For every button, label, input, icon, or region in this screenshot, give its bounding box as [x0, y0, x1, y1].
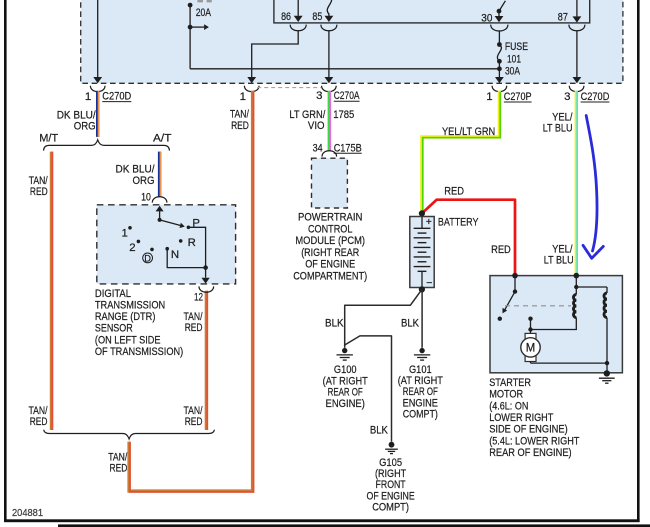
svg-text:1785: 1785: [333, 109, 354, 121]
svg-text:N: N: [171, 249, 179, 261]
svg-text:DK BLU/: DK BLU/: [57, 109, 97, 121]
svg-text:SENSOR: SENSOR: [95, 323, 133, 335]
svg-text:BLK: BLK: [325, 317, 344, 329]
svg-text:(5.4L: LOWER RIGHT: (5.4L: LOWER RIGHT: [489, 435, 579, 447]
svg-text:OF TRANSMISSION): OF TRANSMISSION): [95, 346, 183, 358]
svg-text:1: 1: [240, 91, 246, 103]
svg-text:MODULE (PCM): MODULE (PCM): [295, 235, 365, 247]
svg-text:D: D: [144, 253, 151, 263]
svg-text:1: 1: [85, 91, 91, 103]
svg-text:2: 2: [129, 242, 135, 254]
svg-text:−: −: [426, 277, 432, 289]
svg-text:ORG: ORG: [133, 175, 155, 187]
svg-text:TAN/: TAN/: [230, 109, 250, 121]
svg-text:POWERTRAIN: POWERTRAIN: [298, 212, 362, 224]
svg-text:RED: RED: [30, 186, 48, 198]
svg-text:C270A: C270A: [334, 90, 360, 102]
svg-text:DIGITAL: DIGITAL: [95, 288, 131, 300]
svg-text:3: 3: [316, 90, 322, 102]
svg-text:MOTOR: MOTOR: [489, 389, 523, 401]
svg-text:20A: 20A: [196, 7, 212, 19]
svg-text:BLK: BLK: [401, 317, 419, 329]
svg-text:RANGE (DTR): RANGE (DTR): [95, 311, 156, 323]
svg-text:SIDE OF ENGINE): SIDE OF ENGINE): [489, 424, 568, 436]
svg-text:12: 12: [194, 292, 203, 304]
svg-text:G100: G100: [334, 364, 357, 376]
svg-text:YEL/LT GRN: YEL/LT GRN: [442, 126, 495, 138]
svg-text:30: 30: [481, 12, 492, 24]
svg-text:M: M: [526, 343, 536, 355]
svg-text:C270D: C270D: [102, 91, 131, 103]
svg-text:OF ENGINE: OF ENGINE: [305, 259, 355, 271]
svg-text:(RIGHT REAR: (RIGHT REAR: [301, 247, 359, 259]
svg-text:A/T: A/T: [153, 132, 172, 144]
svg-text:M/T: M/T: [39, 132, 58, 144]
svg-text:RED: RED: [30, 416, 48, 428]
svg-text:FUSE: FUSE: [505, 41, 528, 53]
svg-text:TRANSMISSION: TRANSMISSION: [95, 300, 165, 312]
svg-text:COMPT): COMPT): [372, 501, 409, 513]
svg-text:RED: RED: [491, 244, 511, 256]
svg-text:COMPT): COMPT): [403, 408, 438, 420]
svg-text:86: 86: [281, 11, 291, 23]
svg-text:(AT RIGHT: (AT RIGHT: [323, 375, 368, 387]
svg-text:30A: 30A: [505, 65, 520, 77]
svg-text:C270D: C270D: [581, 91, 610, 103]
svg-text:RED: RED: [185, 416, 203, 428]
svg-text:REAR OF ENGINE): REAR OF ENGINE): [489, 447, 572, 459]
svg-text:1: 1: [486, 91, 492, 103]
svg-text:RED: RED: [444, 186, 464, 198]
svg-text:+: +: [426, 216, 432, 228]
svg-text:1: 1: [122, 228, 128, 240]
svg-text:87: 87: [558, 11, 568, 23]
svg-text:(ON LEFT SIDE: (ON LEFT SIDE: [95, 334, 161, 346]
svg-text:VIO: VIO: [308, 120, 325, 132]
svg-text:(4.6L: ON: (4.6L: ON: [489, 400, 528, 412]
svg-text:BATTERY: BATTERY: [438, 216, 479, 228]
svg-text:LT BLU: LT BLU: [543, 122, 573, 134]
svg-text:85: 85: [312, 11, 322, 23]
svg-text:34: 34: [313, 142, 323, 154]
svg-text:C270P: C270P: [504, 91, 532, 103]
svg-text:COMPARTMENT): COMPARTMENT): [293, 270, 367, 282]
svg-text:LOWER RIGHT: LOWER RIGHT: [489, 412, 553, 424]
svg-text:ENGINE): ENGINE): [326, 398, 365, 410]
svg-text:STARTER: STARTER: [489, 377, 531, 389]
svg-text:CONTROL: CONTROL: [308, 223, 352, 235]
svg-text:LT GRN/: LT GRN/: [289, 109, 326, 121]
svg-text:LT BLU: LT BLU: [544, 255, 574, 267]
svg-text:RED: RED: [231, 120, 249, 132]
svg-text:204881: 204881: [12, 508, 43, 519]
svg-text:R: R: [188, 237, 196, 249]
svg-text:RED: RED: [185, 322, 203, 334]
svg-text:101: 101: [507, 53, 521, 65]
svg-text:BLK: BLK: [370, 425, 388, 437]
svg-text:3: 3: [564, 91, 570, 103]
svg-text:DK BLU/: DK BLU/: [116, 164, 156, 176]
svg-text:10: 10: [141, 191, 151, 203]
svg-text:REAR OF: REAR OF: [328, 387, 363, 399]
svg-text:ORG: ORG: [74, 121, 96, 133]
svg-text:RED: RED: [110, 463, 128, 475]
svg-text:C175B: C175B: [334, 142, 362, 154]
